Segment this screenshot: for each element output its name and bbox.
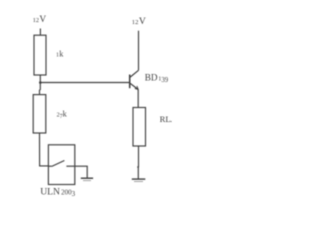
label ULN2003: [40, 187, 75, 199]
svg-text:3: 3: [72, 190, 76, 198]
transistor Q1 BD139: [130, 70, 139, 89]
net +12V (left supply label): [33, 15, 47, 25]
wire (emitter to RL): [137, 90, 139, 108]
resistor R2: [33, 95, 46, 133]
wire: [39, 75, 42, 95]
svg-text:12: 12: [132, 19, 139, 26]
svg-text:V: V: [139, 16, 146, 27]
svg-text:.: .: [170, 114, 172, 124]
ground (below RL): [132, 178, 146, 180]
wire: [40, 133, 49, 166]
switch contact inside ULN2003: [48, 165, 51, 167]
IC U1 ULN2003: [48, 145, 74, 185]
node A (junction dot): [39, 81, 42, 84]
wire: [39, 29, 41, 36]
value label 1k: [56, 49, 64, 58]
svg-text:V: V: [39, 15, 46, 25]
label RL: [160, 114, 173, 124]
node (wire jog): [137, 166, 139, 168]
svg-text:BD: BD: [145, 72, 158, 82]
ground (below ULN2003 output): [81, 177, 93, 179]
wire: [75, 166, 87, 178]
svg-text:12: 12: [33, 17, 39, 24]
svg-text:RL: RL: [160, 114, 171, 124]
label BD139: [145, 72, 169, 84]
resistor R1: [34, 35, 46, 75]
svg-text:39: 39: [161, 77, 168, 84]
wire (collector supply): [138, 31, 140, 71]
wire (base wire to transistor): [40, 82, 129, 84]
value label 27k: [57, 109, 68, 120]
wire: [138, 146, 140, 167]
resistor RL: [133, 108, 146, 147]
net +12V (right supply label): [132, 16, 146, 27]
svg-text:ULN: ULN: [40, 187, 60, 198]
svg-text:200: 200: [61, 189, 72, 197]
